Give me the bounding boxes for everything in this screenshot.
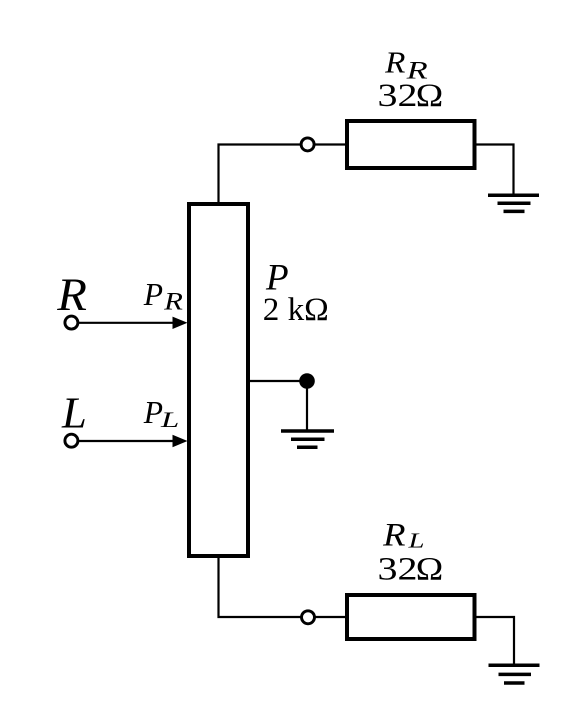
svg-text:R: R [382, 518, 406, 554]
svg-text:32: 32 [378, 78, 418, 114]
svg-text:L: L [61, 388, 87, 438]
svg-text:L: L [407, 529, 424, 553]
svg-text:P: P [143, 395, 163, 430]
svg-text:R: R [56, 270, 87, 321]
svg-text:R: R [384, 45, 405, 80]
svg-text:Ω: Ω [416, 78, 444, 114]
svg-text:R: R [163, 288, 183, 315]
svg-text:2 kΩ: 2 kΩ [263, 292, 329, 328]
svg-text:Ω: Ω [416, 552, 444, 588]
svg-text:32: 32 [378, 552, 418, 588]
svg-text:P: P [143, 277, 163, 312]
svg-text:L: L [160, 407, 180, 432]
